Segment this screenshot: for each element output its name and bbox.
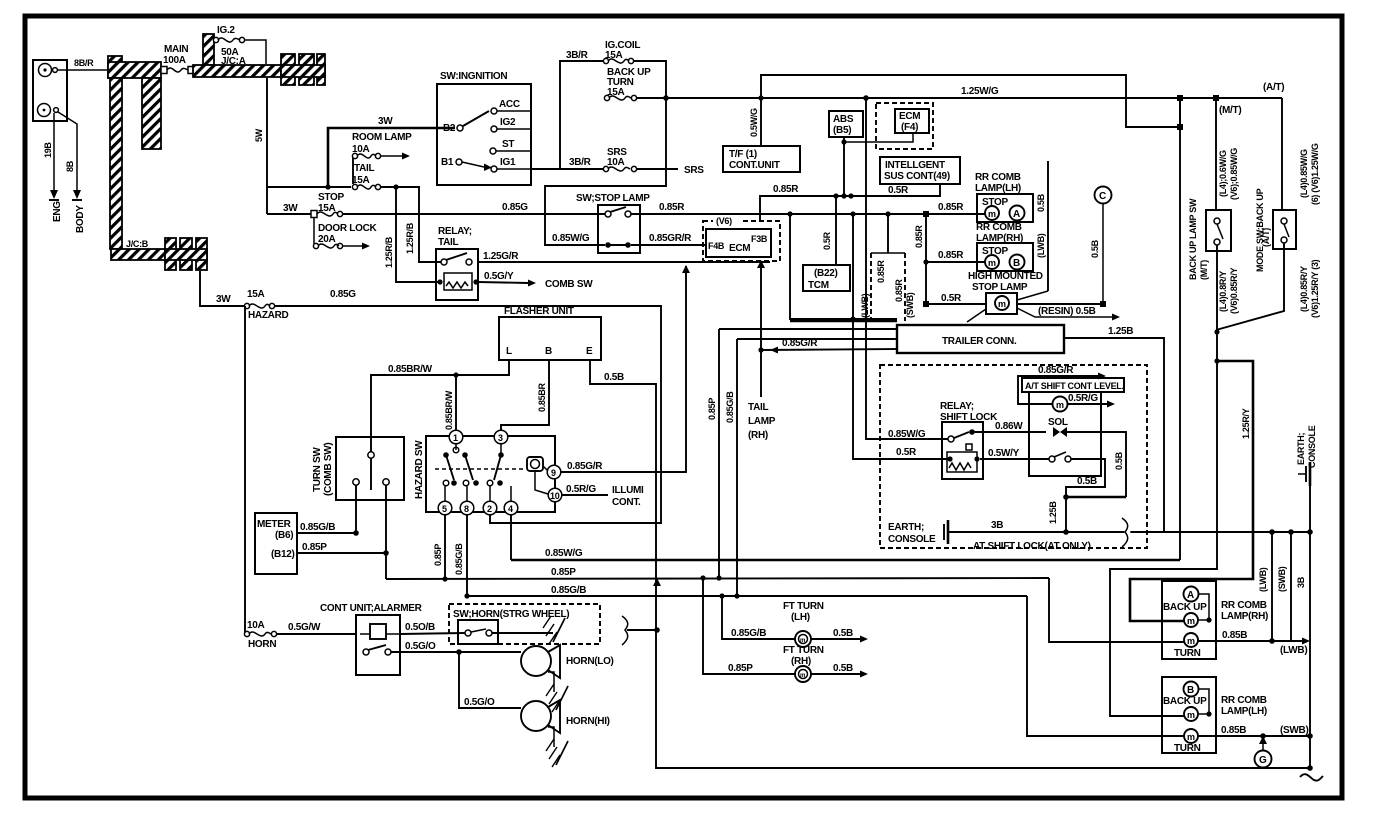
svg-text:IG.2: IG.2 [217,25,235,36]
wire door lock arrow [342,245,362,247]
svg-text:19B: 19B [43,142,53,158]
J/C-B bus bar [108,56,207,270]
wire HMSL diagonals [967,309,986,322]
svg-text:(B5): (B5) [833,125,851,136]
wire 3W to ignition switch B2 [328,128,455,187]
svg-text:TRAILER CONN.: TRAILER CONN. [942,336,1017,347]
switch shift lock inner [1049,452,1071,462]
svg-text:DOOR LOCK: DOOR LOCK [318,223,377,234]
svg-text:0.85W/G: 0.85W/G [545,548,583,559]
svg-text:1.25B: 1.25B [1048,501,1058,524]
wire 0.85R trunk to trailer [790,214,897,319]
ignition switch SW:INGNITION [437,71,531,185]
fuse IG.COIL 15A [603,58,633,63]
svg-text:SUS CONT(49): SUS CONT(49) [884,171,950,182]
fuse DOOR LOCK 20A [313,243,342,248]
wire turn LH feed [1027,596,1184,736]
svg-text:1.25R/B: 1.25R/B [405,222,415,254]
svg-text:0.85P: 0.85P [551,567,576,578]
svg-text:m: m [1187,636,1195,646]
svg-text:(RESIN) 0.5B: (RESIN) 0.5B [1038,306,1096,317]
svg-text:CONT.: CONT. [612,497,641,508]
svg-text:0.5B: 0.5B [604,372,624,383]
wire 0.5B to connector C [1017,303,1103,305]
svg-text:8: 8 [464,504,469,514]
relay RELAY;SHIFT LOCK [940,401,998,479]
svg-text:IG2: IG2 [500,117,516,128]
svg-text:0.85G: 0.85G [330,289,356,300]
wire 1.25R/B to relay coil [396,187,440,282]
svg-text:SW;HORN(STRG WHEEL): SW;HORN(STRG WHEEL) [453,609,569,620]
svg-text:(LWB): (LWB) [1258,567,1268,592]
node 1.25W/G trunk [863,95,869,101]
svg-text:10A: 10A [247,620,265,631]
svg-text:1.25W/G: 1.25W/G [961,86,999,97]
svg-text:0.5B: 0.5B [1090,239,1100,258]
wire 0.85B RH turn [1198,640,1302,642]
svg-text:4: 4 [508,504,513,514]
svg-text:(LWB): (LWB) [860,293,870,318]
wire 0.85G hazard to flasher circuit [274,306,661,523]
ground EARTH;CONSOLE [888,520,948,545]
wire ABS/ECM drop [843,137,845,195]
svg-text:0.85P: 0.85P [302,542,327,553]
svg-text:INTELLGENT: INTELLGENT [885,160,945,171]
svg-text:3W: 3W [378,116,393,127]
svg-text:0.5G/O: 0.5G/O [405,641,436,652]
svg-text:0.86W: 0.86W [995,421,1023,432]
connector TRAILER CONN [790,321,1064,353]
wire 0.5G/W to alarmer [276,633,356,635]
wire 0.5B join [1066,496,1126,499]
svg-text:0.85G: 0.85G [502,202,528,213]
wire flasher L [371,360,509,452]
bus 0.85G/B [467,595,1027,597]
svg-text:0.85P: 0.85P [728,663,753,674]
svg-text:ILLUMI: ILLUMI [612,485,644,496]
svg-text:EARTH;: EARTH; [1296,433,1306,465]
svg-text:0.85B: 0.85B [1222,630,1247,641]
svg-text:FLASHER UNIT: FLASHER UNIT [504,306,574,317]
svg-text:G: G [1259,755,1267,766]
svg-text:FT TURN: FT TURN [783,645,824,656]
wire 0.85GR/R to ECM [631,244,706,246]
svg-text:E: E [586,346,593,357]
wire turn sw right contact to 0.85P [385,485,387,579]
svg-text:0.5G/Y: 0.5G/Y [484,271,514,282]
svg-text:0.85W/G: 0.85W/G [552,233,590,244]
svg-text:LAMP(LH): LAMP(LH) [1221,706,1267,717]
fuse SRS 10A [603,166,636,171]
svg-text:ECM: ECM [729,243,750,254]
svg-text:CONT.UNIT: CONT.UNIT [729,160,780,171]
wire 0.5R trunk to shift lock [853,214,947,459]
svg-text:8B: 8B [65,160,75,172]
battery [33,60,67,121]
svg-text:0.85G/B: 0.85G/B [454,543,464,575]
wire 0.5B switch out [1066,459,1105,532]
svg-text:0.85B: 0.85B [1221,725,1246,736]
svg-text:3W: 3W [283,203,298,214]
wire SRS output [636,168,678,170]
svg-text:COMB SW: COMB SW [545,279,593,290]
lamp shift cont indicator [1053,397,1068,412]
wire flasher B to hazard 3 [501,360,549,430]
svg-text:0.85R: 0.85R [659,202,685,213]
node 0.5B bus arrow [653,578,661,586]
svg-text:0.85R: 0.85R [938,202,964,213]
unit T/F (1) CONT.UNIT [723,146,800,172]
svg-text:BACK UP: BACK UP [1163,696,1207,707]
svg-text:RELAY;: RELAY; [940,401,974,412]
switch SW;STOP LAMP [576,193,650,253]
svg-text:3: 3 [498,433,503,443]
svg-text:0.5B: 0.5B [833,628,853,639]
wire room lamp fuse riser [352,156,354,184]
lamp HIGH MOUNTED STOP LAMP [968,271,1043,314]
node bottom right [1307,765,1313,771]
svg-text:0.85BR/W: 0.85BR/W [444,390,454,430]
svg-text:RELAY;: RELAY; [438,226,472,237]
BODY ground arrow [73,190,81,199]
svg-text:LAMP: LAMP [748,416,776,427]
unit TCM (B22) [803,265,850,291]
svg-text:(B22): (B22) [814,268,838,279]
svg-text:m: m [1056,400,1064,410]
wire 5W to fuse feed line [267,186,351,188]
wire 0.85P meter [297,552,386,554]
svg-text:ABS: ABS [833,114,854,125]
svg-text:0.5W/Y: 0.5W/Y [988,448,1020,459]
fuse BACK UP TURN 15A [604,95,636,100]
horn HORN(LO) [521,645,614,712]
wire mode sw output diagonal [1216,243,1284,330]
svg-text:SW:INGNITION: SW:INGNITION [440,71,507,82]
svg-text:ST: ST [502,139,514,150]
svg-text:SRS: SRS [684,165,704,176]
lamp FT TURN (LH) [722,596,868,647]
wire ground squiggle [1300,774,1323,780]
wire LWB rail [1271,532,1273,641]
wire 0.5R sus cont [760,184,940,222]
svg-text:F4B: F4B [708,241,725,251]
svg-text:STOP LAMP: STOP LAMP [972,282,1028,293]
wire 19B to ENG ground [53,113,55,190]
svg-text:m: m [998,299,1006,309]
svg-text:0.5B: 0.5B [1077,476,1097,487]
svg-text:HORN(LO): HORN(LO) [566,656,614,667]
svg-text:BODY: BODY [75,205,86,233]
wire J/C-B to hazard fuse [200,271,245,306]
svg-text:m: m [1187,732,1195,742]
fuse ROOM LAMP 10A [352,153,380,158]
wire 0.85P to trailer [719,328,897,330]
svg-text:1.25R/Y: 1.25R/Y [1241,408,1251,439]
wire 8B to BODY ground [58,112,77,190]
svg-text:TAIL: TAIL [748,402,768,413]
wire TCM riser [835,196,837,265]
svg-text:3B: 3B [991,520,1003,531]
wire IG1 output 3B/R [531,168,604,170]
switch SW;HORN(STRG WHEEL) [449,604,600,644]
svg-text:0.85P: 0.85P [707,398,717,420]
svg-text:HIGH MOUNTED: HIGH MOUNTED [968,271,1043,282]
svg-text:(6) (V6)1.25W/G: (6) (V6)1.25W/G [1310,143,1320,205]
svg-text:(M/T): (M/T) [1219,105,1241,116]
wire room lamp arrow [380,155,402,157]
lamp RR COMB LAMP(LH) backup/turn [1162,677,1216,754]
wire tail fuse output [380,187,444,262]
switch HAZARD SW [414,430,562,515]
svg-text:HAZARD SW: HAZARD SW [414,440,425,499]
wire 0.85R stop lamp bus [631,213,985,215]
svg-text:(RH): (RH) [748,430,768,441]
wire 3W stop fuse feed [267,213,314,215]
svg-text:m: m [800,638,805,644]
switch MODE SW;BACK UP (A/T) [1255,188,1296,272]
svg-text:5W: 5W [254,128,264,142]
svg-text:0.85G/B: 0.85G/B [300,522,335,533]
svg-text:100A: 100A [163,55,186,66]
wire 0.85BR/W to hazard 1 [455,375,457,430]
svg-text:TURN SW: TURN SW [312,447,323,492]
wire horn interrupt brace [622,616,628,645]
box AT SHIFT LOCK dashed [880,365,1147,548]
svg-text:A: A [1187,590,1194,601]
svg-text:0.5B: 0.5B [1036,193,1046,212]
wire hazard 8 drop to 0.85G/B [466,515,468,596]
svg-text:m: m [1187,710,1195,720]
fuse IG.2 50A [213,37,244,42]
svg-text:0.85BR/W: 0.85BR/W [388,364,433,375]
svg-text:0.5B: 0.5B [833,663,853,674]
svg-text:0.85W/G: 0.85W/G [888,429,926,440]
svg-text:(B6): (B6) [275,530,293,541]
svg-text:HORN: HORN [248,639,276,650]
svg-text:TAIL: TAIL [438,237,458,248]
wire 0.85R to RH stop [926,261,985,263]
wire 0.85G/R tail lamp [760,261,762,397]
svg-text:0.85R: 0.85R [876,260,886,283]
svg-text:(L4)0.8R/Y: (L4)0.8R/Y [1218,271,1228,312]
unit METER [255,513,297,574]
svg-text:10: 10 [550,491,560,501]
fuse STOP 15A [311,211,343,218]
unit ABS (B5) [829,111,863,137]
svg-text:SOL: SOL [1048,417,1068,428]
svg-text:0.85G/B: 0.85G/B [725,391,735,423]
wire 3B/R riser to IG.COIL fuse [560,61,604,169]
lamp RR COMB LAMP(LH) STOP [975,172,1033,222]
svg-text:CONT UNIT;ALARMER: CONT UNIT;ALARMER [320,603,423,614]
svg-text:m: m [800,673,805,679]
ECM (V6) module [703,215,780,261]
connector G [1255,751,1272,768]
svg-text:TURN: TURN [1174,743,1201,754]
svg-text:B1: B1 [441,157,454,168]
svg-text:(L4)0.85R/Y: (L4)0.85R/Y [1299,266,1309,312]
svg-text:(A/T): (A/T) [1263,82,1284,93]
svg-text:10A: 10A [607,157,625,168]
svg-text:LAMP(RH): LAMP(RH) [1221,611,1268,622]
wire 0.5R/G illumination [562,494,608,496]
unit FLASHER UNIT [499,306,601,360]
svg-text:LAMP(LH): LAMP(LH) [975,183,1021,194]
fuse TAIL 15A [352,184,380,189]
svg-text:B: B [545,346,552,357]
wire M/T rail down [1179,98,1181,560]
svg-text:TAIL: TAIL [354,163,374,174]
wire main trunk to shift lock relay [866,98,951,439]
svg-text:(F4): (F4) [901,122,918,133]
svg-text:HAZARD: HAZARD [248,310,288,321]
node room/tail feed [325,184,330,189]
svg-text:B: B [1187,685,1194,696]
ground horn switch [543,616,565,644]
illumination lamp [527,457,543,471]
wire 0.85G/B meter [297,532,356,534]
svg-text:A: A [1013,209,1020,220]
wire 0.5W/Y relay to switch [980,458,1049,460]
svg-text:8B/R: 8B/R [74,58,94,68]
wire 1.25R/Y to backup RH [1130,361,1253,621]
svg-text:ENG: ENG [52,201,63,222]
lamp RR COMB LAMP(RH) STOP [976,222,1033,271]
ENG ground arrow [50,190,58,199]
svg-text:0.85G/R: 0.85G/R [782,338,818,349]
svg-text:1: 1 [453,433,458,443]
svg-text:(L4)0.85W/G: (L4)0.85W/G [1299,149,1309,198]
svg-text:0.5R: 0.5R [896,447,917,458]
svg-text:T/F (1): T/F (1) [729,149,757,160]
wire back up turn fuse to 1.25W/G bus [636,97,1180,99]
svg-text:EARTH;: EARTH; [888,522,924,533]
J/C-A bus bar [193,34,325,85]
svg-text:0.85R: 0.85R [773,184,799,195]
svg-text:0.5O/B: 0.5O/B [405,622,435,633]
svg-text:C: C [1099,191,1106,202]
svg-text:1.25R/B: 1.25R/B [384,236,394,268]
svg-text:(V6)1.25R/Y (3): (V6)1.25R/Y (3) [1310,259,1320,318]
unit A/T SHIFT CONT LEVEL [1022,378,1124,476]
svg-text:0.85G/B: 0.85G/B [731,628,766,639]
switch BACK UP LAMP SW (M/T) [1188,198,1231,280]
svg-text:0.85P: 0.85P [433,544,443,566]
svg-text:B2: B2 [443,123,456,134]
wire 0.85G/R shift cont [1018,376,1098,404]
svg-text:0.5R: 0.5R [941,293,962,304]
bus 0.85P [386,578,1049,579]
wire 0.85G/B to trailer [737,338,897,340]
svg-text:ACC: ACC [499,99,520,110]
svg-text:0.5G/O: 0.5G/O [464,697,495,708]
svg-text:3B: 3B [1296,576,1306,588]
wire 5W drop from J/C-A [266,78,268,214]
wire 3B interrupt brace [1124,518,1130,547]
svg-text:(V6): (V6) [716,216,732,226]
svg-text:TCM: TCM [808,280,829,291]
svg-text:CONSOLE: CONSOLE [888,534,936,545]
svg-text:0.5B: 0.5B [1114,451,1124,470]
wire turn sw left contact to meter [355,485,357,533]
svg-text:RR COMB: RR COMB [976,222,1022,233]
wire mode sw drop [1281,98,1283,210]
wire 0.85G stop fuse to stop lamp switch [342,213,605,215]
svg-text:(SWB): (SWB) [1280,725,1309,736]
wire IG.2 fuse to J/C-A [244,40,266,64]
svg-text:(V6)0.85R/Y: (V6)0.85R/Y [1229,267,1239,314]
svg-text:F3B: F3B [751,234,768,244]
svg-text:A/T SHIFT CONT LEVEL.: A/T SHIFT CONT LEVEL. [1025,381,1124,391]
wire backup lamp sw drop [1215,98,1217,210]
fuse HORN 10A [244,631,276,636]
svg-text:15A: 15A [605,50,623,61]
svg-text:B: B [1013,258,1020,269]
svg-text:0.85G/R: 0.85G/R [1038,365,1074,376]
svg-text:CONSOLE: CONSOLE [1307,425,1317,468]
svg-text:15A: 15A [247,289,265,300]
svg-text:m: m [988,209,996,219]
svg-text:0.85BR: 0.85BR [537,382,547,412]
svg-text:RR COMB: RR COMB [1221,695,1267,706]
wire flasher E 0.5B ground bus [590,360,1310,768]
svg-text:HORN(HI): HORN(HI) [566,716,610,727]
bus 0.85W/G [511,559,1180,562]
wire 3B rail [1309,532,1311,770]
hazard switch poles [443,452,449,458]
lamp RR COMB LAMP(RH) backup/turn [1162,581,1216,659]
svg-text:AT SHIFT LOCK(AT ONLY): AT SHIFT LOCK(AT ONLY) [973,541,1091,552]
svg-text:0.85R: 0.85R [894,279,904,302]
svg-text:0.5R/G: 0.5R/G [1068,393,1098,404]
svg-text:0.5R: 0.5R [822,231,832,250]
fuse HAZARD 15A [244,303,274,308]
svg-text:(SWB): (SWB) [905,292,915,318]
wire SWB rail [1290,532,1292,641]
wire 0.5B LWB drop [1047,161,1049,291]
svg-text:MAIN: MAIN [164,44,188,55]
svg-text:IG1: IG1 [500,157,516,168]
horn HORN(HI) [521,700,610,767]
switch TURN SW (COMB SW) [312,437,404,500]
wire 0.85G/R illumination [561,266,686,472]
wire IG.COIL output [545,61,666,245]
wire 1.25B from trailer [1064,338,1164,531]
fuse MAIN 100A [161,67,194,74]
wire stop fuse to door lock fuse [313,217,315,245]
connector C [1095,187,1112,204]
svg-text:0.5G/W: 0.5G/W [288,622,321,633]
relay RELAY;TAIL [436,226,479,300]
svg-text:1.25B: 1.25B [1108,326,1133,337]
svg-text:(L4);0.6W/G: (L4);0.6W/G [1218,150,1228,197]
wire turn RH feed [1049,578,1184,642]
svg-text:(LH): (LH) [791,612,810,623]
svg-text:m: m [1187,616,1195,626]
wire 0.5R to HMSL [926,303,986,305]
svg-text:0.85R: 0.85R [914,225,924,248]
svg-text:0.85G/R: 0.85G/R [567,461,603,472]
wire 8B/R battery to J/C-B [57,69,108,71]
svg-text:(LWB): (LWB) [1036,233,1046,258]
svg-text:ECM: ECM [899,111,920,122]
svg-text:0.5R/G: 0.5R/G [566,484,596,495]
svg-text:RR COMB: RR COMB [975,172,1021,183]
svg-text:STOP: STOP [318,192,344,203]
wire 0.86W relay to solenoid [972,431,1046,433]
svg-text:3B/R: 3B/R [569,157,592,168]
svg-text:0.85GR/R: 0.85GR/R [649,233,692,244]
